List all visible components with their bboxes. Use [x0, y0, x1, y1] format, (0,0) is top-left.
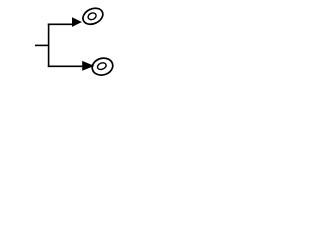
vertical bus wire: [48, 24, 50, 68]
top earphone outer ring: [80, 5, 105, 27]
bottom earphone triangle: [82, 61, 94, 71]
top branch wire: [48, 23, 73, 25]
top earphone triangle: [72, 17, 82, 27]
bottom earphone outer ring: [90, 56, 115, 78]
bottom earphone inner ring: [96, 62, 107, 71]
top earphone inner ring: [87, 12, 97, 21]
bottom branch wire: [48, 65, 83, 67]
input stub wire: [35, 44, 49, 46]
